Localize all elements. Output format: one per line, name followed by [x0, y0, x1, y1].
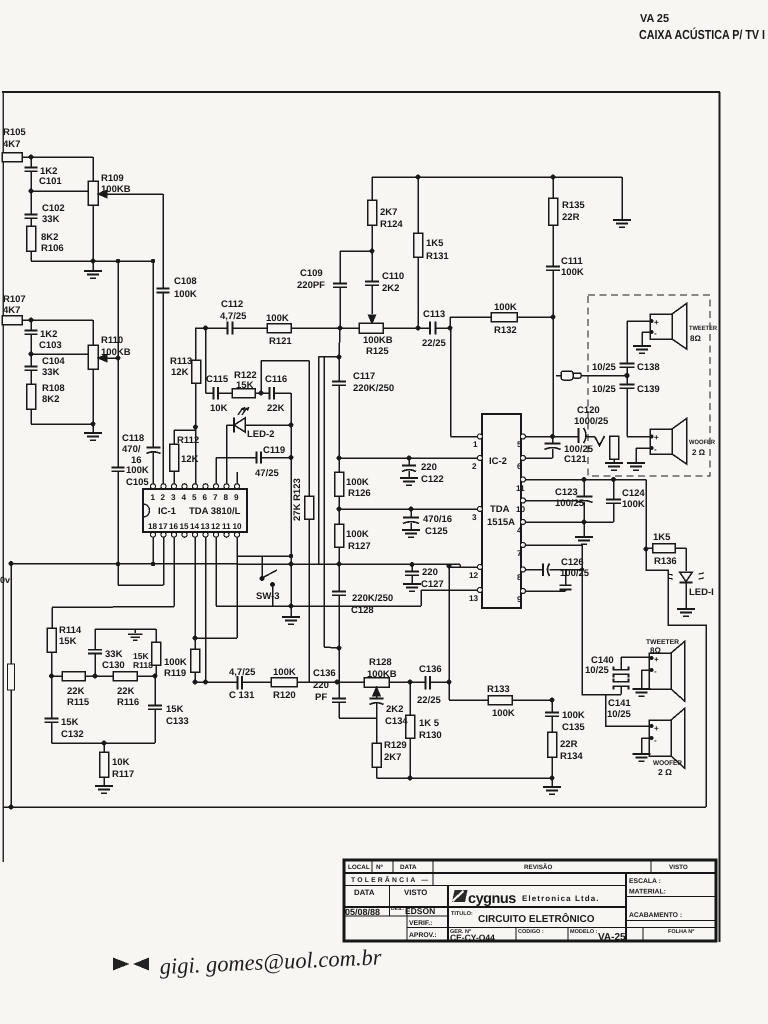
- capacitor C122 with ground: [400, 458, 418, 485]
- wire R124 bottom to C109: [340, 250, 372, 252]
- svg-text:R131: R131: [426, 251, 449, 262]
- supply rail y177: [372, 176, 622, 178]
- wire feedback rail y778: [377, 777, 553, 779]
- svg-text:100/25: 100/25: [555, 498, 585, 509]
- svg-text:100K: 100K: [622, 499, 645, 510]
- resistor R126: [335, 458, 344, 509]
- svg-text:5: 5: [517, 440, 522, 449]
- svg-text:C104: C104: [42, 356, 65, 367]
- svg-text:C108: C108: [174, 276, 197, 287]
- svg-text:10: 10: [516, 505, 526, 514]
- svg-text:gigi. gomes@uol.com.br: gigi. gomes@uol.com.br: [159, 944, 382, 979]
- svg-text:R115: R115: [67, 697, 90, 708]
- svg-text:R116: R116: [117, 697, 139, 708]
- svg-text:6: 6: [517, 462, 522, 471]
- capacitor C101: [25, 157, 38, 191]
- capacitor C138: [620, 321, 635, 376]
- svg-text:05/08/88: 05/08/88: [345, 907, 380, 917]
- svg-text:R126: R126: [348, 488, 371, 499]
- potentiometer R128: [364, 678, 426, 699]
- svg-text:1: 1: [151, 493, 156, 502]
- wire pin12 to SW-3 node: [216, 537, 478, 606]
- wire pin7 to crossover: [525, 545, 621, 695]
- resistor R133: [449, 682, 552, 705]
- svg-text:15: 15: [180, 522, 190, 531]
- svg-text:LED-2: LED-2: [247, 429, 274, 440]
- svg-text:C128: C128: [351, 605, 374, 616]
- svg-text:15K: 15K: [236, 380, 254, 391]
- svg-text:22/25: 22/25: [422, 338, 446, 349]
- speaker terminal marks upper: [654, 318, 659, 454]
- IC-2 pin numbers: [469, 440, 526, 604]
- capacitor C111: [546, 267, 560, 318]
- svg-text:VERIF.:: VERIF.:: [409, 920, 432, 927]
- svg-text:R124: R124: [380, 219, 403, 230]
- svg-text:R113: R113: [170, 356, 192, 367]
- svg-text:VISTO: VISTO: [669, 864, 688, 871]
- svg-text:10K: 10K: [112, 757, 130, 768]
- svg-text:EDSON: EDSON: [405, 906, 435, 916]
- wire pin12 drop to C136 rail: [449, 567, 478, 682]
- svg-text:100K: 100K: [346, 477, 369, 488]
- capacitor C123: [577, 480, 593, 523]
- wire x291 vertical: [290, 393, 292, 606]
- title block header texts: [348, 863, 688, 884]
- resistor R130: [406, 682, 415, 778]
- resistor R132: [450, 313, 553, 329]
- resistor R116: [113, 672, 155, 681]
- svg-text:1: 1: [473, 440, 478, 449]
- svg-text:100KB: 100KB: [101, 347, 131, 358]
- svg-text:C117: C117: [353, 371, 375, 382]
- svg-text:C130: C130: [102, 660, 125, 671]
- svg-text:C111: C111: [561, 256, 583, 267]
- capacitor C102: [25, 191, 38, 226]
- svg-text:220K/250: 220K/250: [352, 593, 393, 604]
- wire woofer2 feed: [606, 695, 650, 727]
- svg-text:4K7: 4K7: [3, 139, 20, 150]
- capacitor on pin9 wire: [525, 570, 572, 591]
- svg-text:7: 7: [213, 493, 218, 502]
- svg-text:TWEETER: TWEETER: [689, 325, 717, 332]
- svg-text:11: 11: [516, 484, 525, 493]
- IC-1 pin numbers top: [151, 493, 240, 502]
- svg-text:4,7/25: 4,7/25: [220, 311, 247, 322]
- wire y718: [339, 717, 377, 719]
- svg-text:C115: C115: [206, 374, 229, 385]
- svg-text:R128: R128: [369, 657, 392, 668]
- wire pin10 stub: [525, 500, 577, 502]
- junction node dots: [9, 155, 654, 810]
- svg-text:16: 16: [169, 522, 179, 531]
- svg-text:2: 2: [472, 462, 477, 471]
- svg-text:CODIGO :: CODIGO :: [518, 929, 544, 935]
- wire ground rail under R109: [31, 260, 153, 262]
- capacitor C126: [525, 564, 582, 577]
- wire 0v rail jog to IC2 pin12: [460, 565, 478, 568]
- svg-text:100K: 100K: [164, 657, 187, 668]
- sheet border right: [718, 92, 720, 942]
- svg-text:R121: R121: [269, 336, 292, 347]
- capacitor C133: [148, 676, 162, 743]
- capacitor C135: [545, 700, 559, 732]
- svg-text:R106: R106: [41, 243, 64, 254]
- signal rail y328: [195, 327, 228, 329]
- svg-text:C101: C101: [39, 176, 62, 187]
- capacitor C117: [319, 328, 347, 648]
- svg-text:-: -: [654, 445, 657, 454]
- svg-text:REVISÃO: REVISÃO: [524, 863, 552, 871]
- svg-text:R112: R112: [177, 435, 199, 446]
- svg-text:-: -: [654, 667, 657, 676]
- svg-text:IC-2: IC-2: [489, 456, 507, 467]
- svg-text:22R: 22R: [562, 212, 580, 223]
- wire to tweeter upper plus: [627, 320, 650, 322]
- svg-text:2K7: 2K7: [380, 207, 397, 218]
- wire pin13 down to C131 rail: [205, 537, 207, 682]
- svg-text:R107: R107: [3, 294, 26, 305]
- resistor R127: [335, 509, 344, 564]
- woofer lower driver: [649, 709, 685, 769]
- resistor R131: [414, 177, 423, 328]
- wire pin17 to C105 line: [118, 537, 164, 585]
- svg-text:33K: 33K: [42, 367, 60, 378]
- svg-text:TWEETER: TWEETER: [646, 639, 679, 646]
- resistor R118: [152, 629, 161, 676]
- capacitor C118: [147, 261, 161, 484]
- svg-text:1515A: 1515A: [487, 517, 515, 528]
- tweeter upper driver: [650, 304, 687, 350]
- sheet border left: [2, 92, 4, 862]
- svg-text:2: 2: [161, 493, 166, 502]
- woofer upper driver: [650, 419, 687, 465]
- capacitor C141: [614, 679, 629, 695]
- IC-1 bottom pin circles: [151, 532, 240, 537]
- svg-text:22K: 22K: [117, 686, 135, 697]
- svg-text:+: +: [654, 655, 659, 664]
- svg-text:MODELO :: MODELO :: [570, 929, 598, 935]
- tweeter lower driver: [649, 642, 685, 702]
- svg-text:R105: R105: [3, 127, 26, 138]
- tweeter upper minus ground: [633, 332, 651, 353]
- svg-text:12: 12: [211, 522, 221, 531]
- svg-text:17: 17: [159, 522, 169, 531]
- woofer upper minus ground: [627, 448, 650, 470]
- ground at right end of supply rail: [613, 177, 631, 227]
- resistor R114: [47, 628, 56, 676]
- svg-text:3: 3: [171, 493, 176, 502]
- svg-text:2K2: 2K2: [382, 283, 399, 294]
- capacitor C134: [370, 699, 384, 719]
- capacitor C130 with small ground: [88, 629, 156, 676]
- svg-text:SW-3: SW-3: [256, 591, 280, 602]
- svg-text:220PF: 220PF: [297, 280, 325, 291]
- capacitor C105: [112, 468, 125, 565]
- RCA input jack: [556, 371, 627, 380]
- svg-text:220: 220: [421, 462, 437, 473]
- wire rail drop to C115: [205, 328, 207, 393]
- svg-text:WOOFER: WOOFER: [689, 439, 715, 446]
- svg-text:+: +: [654, 318, 659, 327]
- svg-text:470/: 470/: [122, 444, 141, 455]
- svg-text:C113: C113: [423, 309, 445, 320]
- svg-text:C124: C124: [622, 488, 645, 499]
- capacitor C110: [365, 251, 379, 323]
- wire R128 rail: [337, 681, 364, 683]
- wire pin9 stub: [236, 472, 238, 484]
- svg-text:VISTO: VISTO: [404, 888, 427, 897]
- speaker terminal marks lower: [654, 655, 659, 745]
- svg-text:R114: R114: [59, 625, 82, 636]
- svg-text:IC-1: IC-1: [158, 506, 177, 517]
- svg-text:VA-25: VA-25: [598, 932, 626, 943]
- svg-text:7: 7: [517, 549, 522, 558]
- svg-text:C112: C112: [221, 299, 243, 310]
- svg-text:R118: R118: [133, 660, 153, 670]
- svg-text:ESCALA :: ESCALA :: [629, 878, 661, 885]
- svg-text:220: 220: [313, 680, 329, 691]
- capacitor C132: [45, 676, 59, 743]
- resistor R119: [191, 649, 200, 682]
- svg-text:R136: R136: [654, 556, 677, 567]
- wire C108 line from R109 wiper: [162, 194, 164, 288]
- wire C103 to pot R110: [31, 353, 88, 355]
- capacitor C121: [545, 437, 561, 459]
- svg-text:R119: R119: [164, 668, 186, 679]
- svg-text:15K: 15K: [59, 636, 77, 647]
- wire C101 to pot R109: [31, 190, 88, 192]
- jack sleeve with ground: [605, 436, 623, 470]
- svg-text:22R: 22R: [560, 739, 578, 750]
- svg-text:TOLERÂNCIA —: TOLERÂNCIA —: [351, 875, 430, 884]
- svg-text:100K: 100K: [266, 313, 289, 324]
- svg-text:10/25: 10/25: [592, 384, 616, 395]
- svg-text:15K: 15K: [61, 717, 79, 728]
- svg-text:10/25: 10/25: [585, 665, 609, 676]
- wire to woofer upper plus: [627, 436, 650, 438]
- svg-text:R120: R120: [273, 690, 296, 701]
- svg-text:100KB: 100KB: [367, 669, 397, 680]
- potentiometer R110: [88, 320, 118, 424]
- wire C116 node up over to R123 line: [261, 361, 309, 394]
- svg-text:47/25: 47/25: [255, 468, 279, 479]
- svg-text:R133: R133: [487, 684, 510, 695]
- svg-text:100K: 100K: [273, 667, 296, 678]
- svg-text:22K: 22K: [267, 403, 285, 414]
- capacitor C140: [614, 657, 629, 678]
- svg-text:8Ω: 8Ω: [690, 334, 701, 343]
- svg-text:TDA 3810/L: TDA 3810/L: [189, 506, 241, 517]
- capacitor C113: [430, 322, 450, 335]
- resistor R117 with ground: [95, 743, 113, 793]
- svg-text:2K2: 2K2: [386, 704, 403, 715]
- test point V mark: [595, 436, 605, 446]
- svg-text:C141: C141: [608, 698, 631, 709]
- svg-text:6: 6: [203, 493, 208, 502]
- svg-text:3: 3: [472, 513, 477, 522]
- svg-text:2K7: 2K7: [384, 752, 401, 763]
- svg-text:C102: C102: [42, 203, 65, 214]
- svg-text:TITULO:: TITULO:: [451, 911, 473, 917]
- dashed speaker group box: [588, 295, 710, 476]
- svg-text:100K: 100K: [494, 302, 517, 313]
- wire pin10-link y638: [195, 537, 237, 638]
- svg-text:8: 8: [224, 493, 229, 502]
- svg-text:100KB: 100KB: [363, 335, 393, 346]
- svg-text:9: 9: [517, 595, 522, 604]
- capacitor C124: [606, 480, 621, 523]
- svg-text:10K: 10K: [210, 403, 228, 414]
- switch SW-3: [260, 556, 277, 606]
- svg-text:+: +: [654, 433, 659, 442]
- svg-text:13: 13: [469, 594, 479, 603]
- wire bottom of tone network: [52, 742, 156, 744]
- svg-text:100KB: 100KB: [101, 184, 131, 195]
- svg-text:220: 220: [422, 567, 438, 578]
- svg-text:R125: R125: [366, 346, 389, 357]
- wire C105 line: [117, 261, 119, 467]
- svg-text:100/25: 100/25: [560, 568, 590, 579]
- svg-text:9: 9: [234, 493, 239, 502]
- capacitor C109: [333, 251, 347, 328]
- svg-text:C119: C119: [263, 445, 285, 456]
- woofer lower minus ground: [633, 738, 651, 761]
- capacitor C116: [261, 387, 291, 400]
- svg-text:220K/250: 220K/250: [353, 383, 394, 394]
- svg-text:CIRCUITO ELETRÔNICO: CIRCUITO ELETRÔNICO: [478, 913, 595, 925]
- svg-text:C138: C138: [637, 362, 660, 373]
- IC-2 right pin circles: [521, 434, 526, 594]
- capacitor C131: [238, 676, 272, 690]
- svg-text:R117: R117: [112, 769, 134, 780]
- wire pin11 rail to R136: [525, 480, 646, 550]
- svg-text:C110: C110: [382, 271, 404, 282]
- svg-text:MATERIAL:: MATERIAL:: [629, 889, 666, 896]
- right column labels: [629, 878, 682, 919]
- wire pin4 rail: [525, 521, 614, 523]
- capacitor C120: [579, 428, 596, 443]
- resistor R134 with ground: [543, 732, 561, 794]
- svg-text:+: +: [654, 724, 659, 733]
- ground under R109 network: [84, 261, 102, 278]
- capacitor C136 22/25: [426, 676, 450, 690]
- op-amp IC-1 TDA3810/L: [143, 489, 247, 532]
- svg-text:18: 18: [148, 522, 158, 531]
- resistor R120: [271, 678, 337, 687]
- svg-text:1K5: 1K5: [426, 238, 444, 249]
- svg-text:13: 13: [201, 522, 211, 531]
- resistor R113: [192, 328, 201, 484]
- resistor R105: [2, 153, 93, 162]
- svg-text:C132: C132: [61, 729, 84, 740]
- wire pin5 rail: [525, 436, 578, 438]
- connector 0v terminal: [8, 564, 15, 807]
- ground under C123: [575, 522, 593, 544]
- resistor R124: [368, 177, 377, 251]
- svg-text:Eletronica Ltda.: Eletronica Ltda.: [522, 894, 600, 903]
- svg-text:4K7: 4K7: [3, 305, 20, 316]
- svg-text:cygnus: cygnus: [468, 891, 516, 907]
- svg-text:FOLHA Nº: FOLHA Nº: [668, 929, 694, 935]
- bottom return rail y807: [3, 806, 706, 808]
- svg-text:R110: R110: [101, 335, 123, 346]
- resistor R136: [646, 544, 686, 572]
- 0v rail y564: [11, 564, 460, 565]
- capacitor C125 with ground: [402, 509, 420, 537]
- svg-text:100K: 100K: [174, 289, 197, 300]
- svg-text:WOOFER: WOOFER: [653, 760, 682, 767]
- rail pin2 y458: [339, 457, 478, 459]
- wire vertical to IC2 pin1: [451, 328, 479, 437]
- svg-text:ACABAMENTO :: ACABAMENTO :: [629, 912, 682, 919]
- wire R108 bottom to pot bottom: [31, 423, 93, 425]
- svg-text:C118: C118: [122, 433, 144, 444]
- svg-text:100K: 100K: [562, 710, 585, 721]
- handwritten arrows: [113, 958, 149, 971]
- LED LED-2: [227, 408, 292, 433]
- resistor R123: [305, 361, 314, 683]
- svg-text:CE-CY-O44: CE-CY-O44: [450, 933, 495, 943]
- svg-text:LOCAL: LOCAL: [348, 864, 370, 871]
- svg-text:100K: 100K: [492, 708, 515, 719]
- svg-text:100K: 100K: [561, 267, 584, 278]
- svg-text:C116: C116: [265, 374, 287, 385]
- svg-text:C109: C109: [300, 268, 323, 279]
- sheet border top: [2, 91, 720, 93]
- resistor R121: [267, 324, 359, 333]
- capacitor C119: [216, 452, 291, 485]
- svg-text:C125: C125: [425, 526, 448, 537]
- title block frame: [344, 860, 716, 941]
- wire LED-2 feed from pin8: [226, 425, 228, 484]
- svg-text:C122: C122: [421, 474, 444, 485]
- svg-text:C 131: C 131: [229, 690, 255, 701]
- potentiometer R109: [88, 157, 163, 261]
- svg-text:1K2: 1K2: [40, 329, 57, 340]
- svg-text:R130: R130: [419, 730, 442, 741]
- svg-text:15K: 15K: [166, 704, 184, 715]
- ground under R110 network: [84, 424, 102, 440]
- resistor R135: [549, 177, 558, 266]
- svg-text:4: 4: [182, 493, 187, 502]
- svg-text:8K2: 8K2: [41, 232, 58, 243]
- svg-text:R129: R129: [384, 740, 407, 751]
- svg-text:C127: C127: [421, 579, 444, 590]
- title block left cells: [345, 888, 437, 939]
- svg-text:14: 14: [190, 522, 200, 531]
- svg-text:1K5: 1K5: [653, 532, 671, 543]
- cygnus logo: [452, 890, 600, 907]
- svg-text:DATA: DATA: [400, 864, 417, 871]
- wire pin6: [525, 457, 553, 459]
- svg-text:VA 25: VA 25: [640, 13, 670, 25]
- svg-text:R127: R127: [348, 541, 371, 552]
- svg-text:R135: R135: [562, 200, 585, 211]
- wire C140 to tweeter2: [621, 656, 649, 658]
- rail pin3 y509: [339, 508, 478, 510]
- svg-text:12: 12: [469, 571, 479, 580]
- tweeter lower minus ground: [633, 670, 651, 696]
- svg-text:PF: PF: [315, 692, 327, 703]
- IC-1 top pin circles: [151, 484, 240, 489]
- wire pin16 long rail to R114: [52, 537, 174, 628]
- svg-text:C139: C139: [637, 384, 660, 395]
- op-amp IC-2 TDA1515A: [482, 414, 521, 608]
- IC-1 pin numbers bottom: [148, 522, 242, 531]
- svg-text:DATA: DATA: [354, 888, 375, 897]
- svg-text:100K: 100K: [126, 465, 149, 476]
- svg-text:0v: 0v: [0, 575, 10, 585]
